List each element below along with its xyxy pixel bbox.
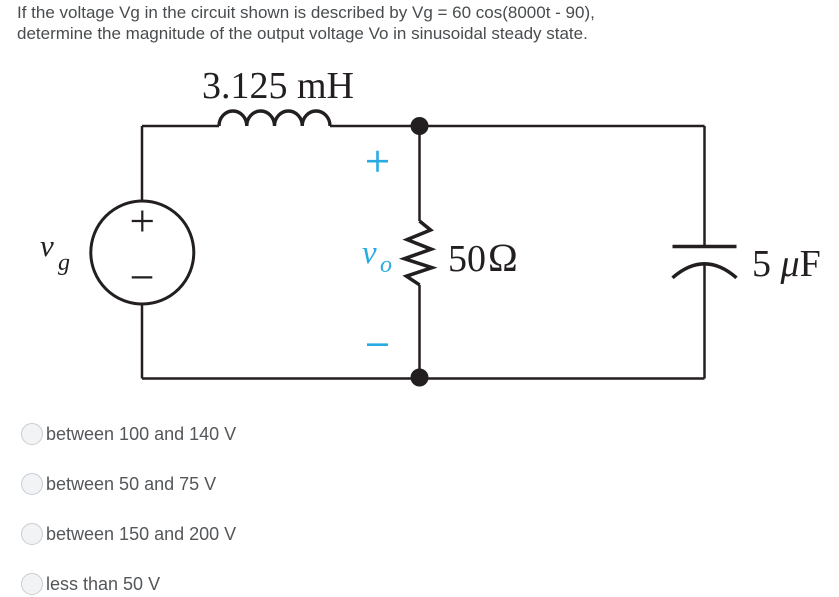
svg-text:g: g bbox=[58, 250, 70, 276]
radio option 1 bbox=[21, 423, 236, 445]
question text bbox=[17, 2, 677, 44]
wire: top segment from inductor to node A bbox=[330, 125, 420, 128]
wire: right vertical from capacitor to bottom wire bbox=[703, 263, 706, 379]
node B junction dot (bottom) bbox=[411, 369, 429, 387]
resistor R1 50 ohm bbox=[404, 221, 432, 285]
polarity plus of source bbox=[132, 211, 153, 232]
wire: middle vertical from resistor to node B bbox=[418, 285, 421, 379]
svg-text:Ω: Ω bbox=[488, 235, 519, 280]
svg-text:50: 50 bbox=[448, 238, 486, 280]
wire: top-left segment from source to inductor bbox=[142, 125, 219, 128]
svg-text:3.125 mH: 3.125 mH bbox=[202, 65, 354, 107]
wire: top segment from node A to right branch bbox=[420, 125, 705, 128]
capacitor C1 5 uF top plate bbox=[673, 245, 737, 249]
polarity plus of vo (cyan) bbox=[367, 151, 388, 172]
node A junction dot (top) bbox=[411, 117, 429, 135]
polarity minus of source bbox=[132, 276, 153, 278]
wire: left vertical from source to bottom wire bbox=[141, 304, 144, 379]
svg-text:5 μF: 5 μF bbox=[752, 243, 821, 285]
radio option 2 bbox=[21, 473, 216, 495]
wire: right vertical from top wire to capacitor bbox=[703, 126, 706, 245]
svg-text:o: o bbox=[380, 252, 392, 278]
radio option 4 bbox=[21, 573, 160, 595]
inductor L1 3.125 mH bbox=[219, 111, 330, 126]
voltage source Vg bbox=[91, 201, 194, 304]
wire: bottom from node B to right branch bbox=[420, 377, 705, 380]
svg-text:v: v bbox=[40, 228, 54, 263]
wire: left vertical from top wire to source bbox=[141, 126, 144, 201]
svg-text:v: v bbox=[362, 235, 377, 271]
capacitor C1 curved bottom plate bbox=[673, 264, 737, 278]
radio option 3 bbox=[21, 523, 236, 545]
polarity minus of vo (cyan) bbox=[367, 343, 388, 346]
wire: bottom from source to node B bbox=[142, 377, 420, 380]
wire: middle vertical from node A to resistor bbox=[418, 126, 421, 221]
